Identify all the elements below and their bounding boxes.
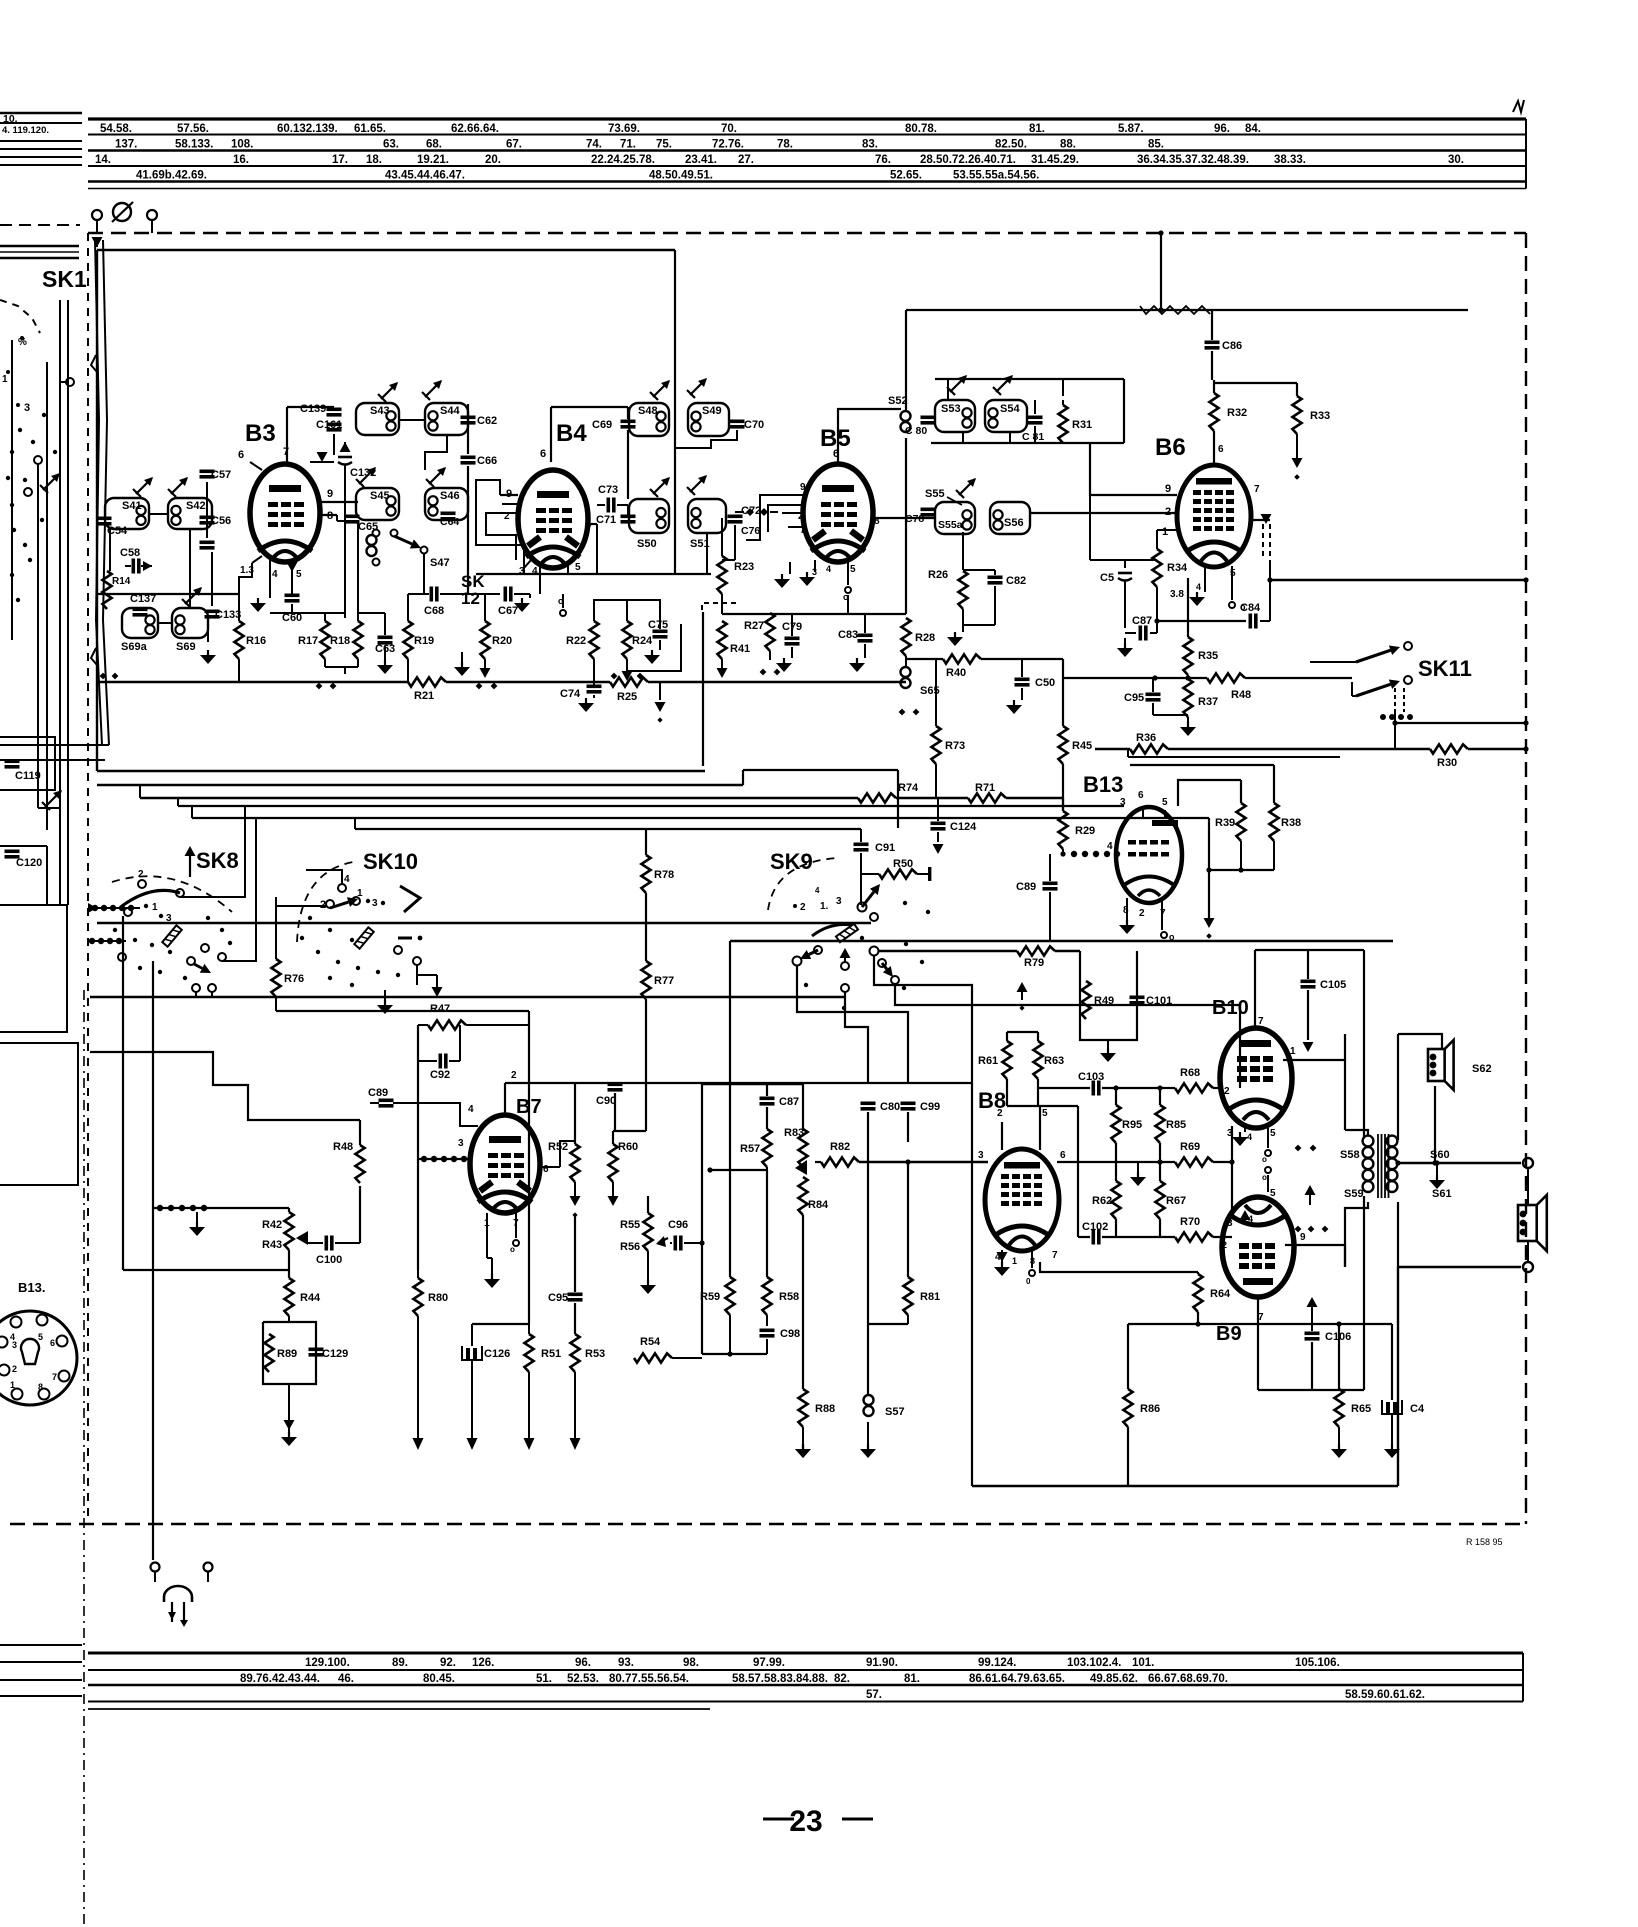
- node numbers top band row 4: [136, 170, 1039, 182]
- resistor R35: [1183, 578, 1218, 679]
- wire bottom band line 1: [88, 1652, 1523, 1655]
- terminal earphone left: [151, 1563, 160, 1572]
- svg-text:108.: 108.: [231, 139, 253, 151]
- svg-text:R33: R33: [1310, 410, 1330, 422]
- svg-text:S53: S53: [941, 403, 961, 415]
- svg-text:2: 2: [1165, 506, 1171, 518]
- svg-text:52.65.: 52.65.: [890, 170, 922, 182]
- ground B13: [1119, 920, 1135, 934]
- capacitor C95: [1124, 678, 1188, 715]
- capacitor C87: [760, 1084, 800, 1108]
- pin 2 B8: [997, 1108, 1003, 1150]
- trimmer arrow S46: [426, 467, 446, 487]
- coil S44: [425, 403, 468, 435]
- resistor R77: [641, 961, 674, 1131]
- switch SK1 extra contacts: [6, 340, 46, 640]
- resistor R76: [271, 897, 304, 1011]
- wire dashed agc: [1263, 524, 1270, 621]
- svg-text:5: 5: [296, 569, 302, 580]
- transformer S58 label: [1340, 1149, 1360, 1161]
- capacitor C87b: [1125, 615, 1157, 641]
- wire C80 drop: [867, 1112, 869, 1324]
- box left lower 1: [0, 905, 67, 1032]
- pin 4 B5: [826, 564, 831, 574]
- svg-text:R79: R79: [1024, 957, 1044, 969]
- capacitor C91: [854, 829, 896, 905]
- pin 9 B4: [500, 488, 518, 500]
- resistor R82: [815, 1141, 988, 1167]
- wire B5 grid loop: [746, 495, 776, 540]
- switch SK1 label: [42, 266, 87, 292]
- resistor R33: [1214, 383, 1330, 480]
- ground C74: [578, 695, 594, 712]
- svg-text:R51: R51: [541, 1348, 561, 1360]
- capacitor C86: [1205, 310, 1243, 380]
- svg-text:C 80: C 80: [905, 425, 927, 437]
- svg-text:7: 7: [52, 1372, 57, 1382]
- svg-text:57.: 57.: [866, 1689, 882, 1701]
- wire C99 drop: [905, 1112, 910, 1165]
- coil S42: [168, 498, 212, 529]
- svg-text:R59: R59: [700, 1291, 720, 1303]
- svg-text:C57: C57: [211, 469, 231, 481]
- capacitor C126: [462, 1346, 510, 1450]
- svg-text:9: 9: [327, 488, 333, 500]
- svg-text:C100: C100: [316, 1254, 342, 1266]
- terminal antenna symbol: [112, 202, 133, 222]
- resistor R69: [1078, 1141, 1232, 1167]
- svg-text:o: o: [510, 1245, 515, 1254]
- svg-text:R 158 95: R 158 95: [1466, 1537, 1503, 1547]
- svg-text:16.: 16.: [233, 154, 249, 166]
- ground C67: [514, 594, 530, 612]
- svg-text:C75: C75: [648, 619, 668, 631]
- resistor R21: [408, 677, 446, 702]
- svg-text:S48: S48: [638, 405, 658, 417]
- svg-text:2: 2: [800, 902, 806, 913]
- svg-text:6: 6: [1218, 444, 1224, 455]
- wire dashed border bottom: [10, 1523, 1526, 1525]
- capacitor C100: [308, 1186, 360, 1266]
- wire bus y829: [355, 828, 861, 830]
- svg-text:3: 3: [1120, 797, 1126, 808]
- svg-text:1: 1: [2, 374, 8, 385]
- resistor R30: [1430, 744, 1468, 769]
- svg-text:3: 3: [12, 1340, 17, 1350]
- wire B4 plate: [551, 407, 628, 462]
- wire y310: [906, 306, 1468, 314]
- tube B3: [250, 464, 320, 562]
- pin 6 B8: [1057, 1150, 1078, 1162]
- svg-text:R62: R62: [1092, 1195, 1112, 1207]
- svg-text:R39: R39: [1215, 817, 1235, 829]
- pot wiper R42: [296, 1231, 308, 1245]
- capacitor C89b: [1016, 854, 1058, 941]
- svg-text:58.57.58.83.84.88.: 58.57.58.83.84.88.: [732, 1673, 828, 1685]
- svg-text:1: 1: [10, 1380, 15, 1390]
- svg-text:3: 3: [978, 1150, 984, 1161]
- switch SK8 dots: [113, 916, 232, 980]
- box R89 C129: [263, 1322, 316, 1384]
- terminal antenna right: [147, 210, 157, 233]
- trimmer arrow S44: [422, 380, 442, 400]
- svg-text:C73: C73: [598, 484, 618, 496]
- wire bus y997: [90, 992, 845, 997]
- svg-text:1: 1: [357, 888, 363, 899]
- resistor R14: [102, 571, 130, 609]
- capacitor C63: [358, 613, 395, 655]
- wire SK8 step: [90, 1052, 289, 1120]
- wire SK10 feed: [306, 870, 342, 884]
- resistor R55: [620, 1196, 653, 1251]
- svg-text:1.: 1.: [820, 901, 829, 912]
- switch SK8 sector: [122, 890, 180, 906]
- resistor R78: [641, 829, 674, 961]
- coil S53: [935, 400, 975, 432]
- wire stub x705: [702, 612, 704, 766]
- resistor R54: [634, 1336, 702, 1363]
- wire inner box top: [97, 249, 675, 251]
- resistor R83 pot top: [784, 1084, 808, 1167]
- pin 1 B5: [776, 504, 804, 506]
- capacitor C106: [1305, 1297, 1352, 1390]
- svg-text:C68: C68: [424, 605, 444, 617]
- tube B13: [1116, 807, 1182, 903]
- svg-text:3: 3: [458, 1138, 464, 1149]
- capacitor C95b: [548, 1215, 583, 1334]
- svg-text:83.: 83.: [862, 139, 878, 151]
- coil S49: [688, 403, 729, 436]
- wire bus y923: [97, 922, 871, 924]
- wire beads shield: [153, 1205, 289, 1211]
- wire SK12 row: [465, 593, 500, 595]
- svg-text:R26: R26: [928, 569, 948, 581]
- wire SK8 beads in 1: [88, 903, 140, 913]
- capacitor C62: [461, 415, 498, 427]
- wire y1324: [1128, 1321, 1392, 1326]
- switch SK9 label: [770, 849, 813, 874]
- svg-text:101.: 101.: [1132, 1657, 1154, 1669]
- switch SK8 arrow up: [185, 846, 196, 877]
- svg-text:2: 2: [12, 1364, 17, 1374]
- svg-text:89.: 89.: [392, 1657, 408, 1669]
- wire C132 down: [344, 465, 346, 618]
- capacitor C90: [596, 1083, 623, 1132]
- wire top band line 1: [88, 117, 1526, 120]
- svg-text:1: 1: [1290, 1046, 1296, 1057]
- svg-text:81.: 81.: [904, 1673, 920, 1685]
- wire R57 wiper row: [707, 1167, 767, 1172]
- wire x1364 low: [1363, 1196, 1365, 1390]
- resistor R63: [1007, 1032, 1064, 1106]
- switch SK1 contacts: [2, 336, 74, 414]
- svg-text:6: 6: [540, 448, 546, 460]
- ground R69 tap: [1130, 1162, 1146, 1186]
- wire left strip mid lines: [0, 246, 79, 258]
- wire S53 box top: [935, 379, 1124, 443]
- capacitor C133: [205, 609, 242, 621]
- wire top band line 6: [88, 188, 1526, 190]
- svg-text:R30: R30: [1437, 757, 1457, 769]
- ground secondary: [1429, 1160, 1445, 1189]
- svg-text:30.: 30.: [1448, 154, 1464, 166]
- resistor R19: [403, 594, 434, 682]
- svg-text:R78: R78: [654, 869, 674, 881]
- svg-text:R57: R57: [740, 1143, 760, 1155]
- trimmer arrow S49: [687, 378, 707, 398]
- switch SK10 dots: [300, 916, 400, 987]
- tube B5: [803, 464, 873, 562]
- pin 9 B5: [770, 482, 806, 495]
- svg-text:126.: 126.: [472, 1657, 494, 1669]
- svg-text:R69: R69: [1180, 1141, 1200, 1153]
- resistor R23: [717, 518, 754, 614]
- wire y1084: [702, 1084, 803, 1354]
- svg-text:R95: R95: [1122, 1119, 1142, 1131]
- svg-text:S41: S41: [122, 500, 142, 512]
- wire dashed border top: [88, 232, 1526, 234]
- svg-text:27.: 27.: [738, 154, 754, 166]
- wire S41 net: [110, 482, 212, 606]
- svg-text:o: o: [1262, 1173, 1267, 1182]
- svg-text:96.: 96.: [575, 1657, 591, 1669]
- resistor R40: [906, 654, 1063, 679]
- svg-text:6: 6: [238, 449, 244, 461]
- wire bottom band line 4: [88, 1701, 1523, 1703]
- svg-text:2: 2: [1222, 1240, 1227, 1250]
- pin 6 B13: [1138, 790, 1144, 818]
- capacitor C60: [270, 590, 345, 624]
- svg-text:B4: B4: [556, 420, 587, 447]
- svg-text:5: 5: [1162, 797, 1168, 808]
- pin 3 B13: [1120, 797, 1126, 808]
- svg-text:96.: 96.: [1214, 123, 1230, 135]
- coil S45: [356, 488, 399, 520]
- resistor R39: [1215, 780, 1246, 841]
- svg-text:3: 3: [1227, 1218, 1233, 1229]
- wire bus y941: [730, 940, 1393, 942]
- resistor R67: [1155, 1181, 1186, 1237]
- capacitor C69: [592, 407, 636, 499]
- wire C4 top: [1391, 1324, 1393, 1400]
- svg-text:C64: C64: [440, 516, 459, 528]
- wire left strip top lines: [0, 113, 82, 165]
- transformer S59 label: [1344, 1188, 1364, 1200]
- wire bus y749: [1095, 746, 1529, 751]
- switch SK9 arc: [768, 858, 838, 910]
- svg-text:R56: R56: [620, 1241, 640, 1253]
- resistor R88b gnd: [795, 1444, 811, 1458]
- wire R45 drop: [1062, 659, 1064, 811]
- svg-text:72.76.: 72.76.: [712, 139, 744, 151]
- wire bottom band line 3: [88, 1684, 1523, 1686]
- capacitor C67: [498, 587, 530, 618]
- pin 8 B5: [872, 516, 935, 527]
- svg-text:C71: C71: [596, 514, 616, 526]
- wire left strip bottom lines: [0, 1645, 82, 1696]
- svg-text:88.: 88.: [1060, 139, 1076, 151]
- tube B8: [985, 1149, 1059, 1251]
- svg-text:C4: C4: [1410, 1403, 1425, 1415]
- svg-text:19.21.: 19.21.: [417, 154, 449, 166]
- resistor R62b: [1092, 1181, 1121, 1237]
- label R56: [620, 1241, 640, 1253]
- svg-text:3: 3: [166, 913, 172, 924]
- capacitor C70: [730, 419, 765, 431]
- transformer S61 label: [1432, 1188, 1452, 1200]
- switch SK9 numbers: [793, 886, 842, 913]
- switch SK9 contact top: [858, 884, 931, 921]
- ground SK10: [377, 990, 393, 1014]
- pin 1.3 B3: [239, 556, 262, 593]
- svg-text:6: 6: [50, 1338, 55, 1348]
- transformer secondary: [1387, 1136, 1398, 1192]
- svg-text:7: 7: [1254, 484, 1260, 495]
- capacitor C79: [776, 614, 802, 672]
- svg-text:4: 4: [1248, 1214, 1253, 1224]
- resistor R18: [325, 613, 363, 674]
- svg-text:R65: R65: [1351, 1403, 1371, 1415]
- svg-text:7: 7: [1258, 1016, 1264, 1027]
- transformer primary: [1363, 1136, 1374, 1192]
- tube B10 label: [1212, 997, 1249, 1019]
- wire y723: [1392, 720, 1528, 725]
- resistor R59: [700, 1277, 767, 1340]
- svg-text:C67: C67: [498, 605, 518, 617]
- pin 8 B3: [320, 510, 356, 522]
- svg-text:R45: R45: [1072, 740, 1092, 752]
- capacitor C56: [200, 515, 232, 527]
- capacitor C65: [345, 515, 379, 534]
- wire B4 grid loop: [476, 480, 524, 574]
- ground R26: [947, 625, 963, 646]
- svg-text:C102: C102: [1082, 1221, 1108, 1233]
- wire S42 net: [158, 529, 208, 642]
- pin 9 B3: [320, 488, 358, 502]
- svg-text:R49: R49: [1094, 995, 1114, 1007]
- svg-text:C98: C98: [780, 1328, 800, 1340]
- svg-text:C119: C119: [15, 770, 41, 782]
- trimmer arrow S42: [168, 477, 188, 497]
- svg-text:SK11: SK11: [1418, 656, 1472, 681]
- trimmer arrow S48: [650, 380, 670, 400]
- marks plus S65: [899, 709, 920, 716]
- switch SK10 lever: [354, 927, 374, 948]
- svg-text:2: 2: [1139, 908, 1145, 919]
- pin 1 B8: [1012, 1256, 1017, 1266]
- transformer core: [1378, 1134, 1389, 1198]
- tube B10: [1220, 1028, 1292, 1128]
- marks plus R17: [316, 683, 337, 690]
- wire bottom band right end: [1522, 1653, 1524, 1702]
- wire top band line 2: [88, 134, 1526, 136]
- ground B5 grid: [774, 562, 790, 588]
- resistor R64: [1193, 1272, 1231, 1324]
- wire bus y757 stub: [1128, 749, 1340, 757]
- wire C126 top: [472, 1324, 529, 1346]
- tube socket B13: [0, 1311, 77, 1405]
- svg-text:85.: 85.: [1148, 139, 1164, 151]
- svg-text:71.: 71.: [620, 139, 636, 151]
- capacitor C58 trimmer: [120, 547, 152, 574]
- node numbers bottom band row 2: [240, 1673, 1228, 1685]
- resistor R32: [1209, 380, 1247, 448]
- pin 5 B8: [1007, 1106, 1048, 1150]
- wire x1128 drop: [1127, 1324, 1129, 1486]
- wire primary bottom: [1345, 1202, 1368, 1267]
- capacitor C73: [597, 484, 628, 513]
- svg-text:R20: R20: [492, 635, 512, 647]
- svg-text:R71: R71: [975, 782, 995, 794]
- svg-text:3.8: 3.8: [1170, 589, 1184, 600]
- svg-text:C89: C89: [1016, 881, 1036, 893]
- wire secondary out: [1397, 1034, 1399, 1140]
- svg-text:58.133.: 58.133.: [175, 139, 213, 151]
- svg-text:10.: 10.: [3, 113, 18, 125]
- switch SK10 dash: [398, 936, 422, 941]
- switch SK11 label: [1418, 656, 1472, 681]
- capacitor C81: [1022, 400, 1044, 443]
- wire S56 net: [1030, 512, 1177, 514]
- svg-text:81.: 81.: [1029, 123, 1045, 135]
- svg-text:C92: C92: [430, 1069, 450, 1081]
- switch SK10 arc: [297, 862, 353, 942]
- switch SK8 contacts 1: [124, 869, 184, 924]
- wire S62 bottom: [1432, 1086, 1437, 1166]
- wire secondary bottom: [1397, 1202, 1399, 1267]
- coil S41: [105, 498, 149, 529]
- trimmer arrow S55: [956, 478, 976, 498]
- capacitor C92: [418, 1025, 460, 1081]
- resistor R28: [901, 618, 935, 656]
- svg-text:R70: R70: [1180, 1216, 1200, 1228]
- box C119: [0, 737, 55, 790]
- tube B3 label: [245, 420, 276, 447]
- svg-text:B10: B10: [1212, 997, 1249, 1019]
- coil S46: [425, 488, 468, 520]
- resistor R51: [524, 1334, 562, 1450]
- capacitor C54: [97, 517, 129, 538]
- pin 3 B4: [519, 560, 531, 577]
- resistor R49: [1081, 981, 1114, 1019]
- resistor R38: [1130, 765, 1301, 841]
- resistor R60b: [608, 1131, 639, 1206]
- switch SK9 lever: [836, 924, 858, 942]
- capacitor C50: [1006, 659, 1055, 714]
- svg-text:S46: S46: [440, 490, 460, 502]
- marks plus left: [100, 673, 119, 680]
- resistor R17: [298, 613, 330, 667]
- svg-text:S59: S59: [1344, 1188, 1364, 1200]
- switch SK9 arcline: [812, 924, 852, 936]
- pin 1 B4: [502, 503, 518, 505]
- resistor R95: [1111, 1088, 1142, 1181]
- pin 5 B10: [1262, 1128, 1276, 1199]
- wire SK1 horizontals: [0, 745, 109, 846]
- svg-text:R25: R25: [617, 691, 637, 703]
- resistor R89: [264, 1334, 297, 1372]
- svg-text:C70: C70: [744, 419, 764, 431]
- svg-text:C62: C62: [477, 415, 497, 427]
- wire B5 cath row: [847, 595, 849, 614]
- svg-text:B3: B3: [245, 420, 276, 447]
- svg-text:2: 2: [997, 1108, 1003, 1119]
- svg-text:9: 9: [800, 482, 806, 493]
- coil S50: [629, 499, 669, 550]
- box left lower 2: [0, 1043, 78, 1185]
- wire SK9 step 4: [874, 955, 972, 1083]
- pin 6 B6: [1214, 444, 1224, 465]
